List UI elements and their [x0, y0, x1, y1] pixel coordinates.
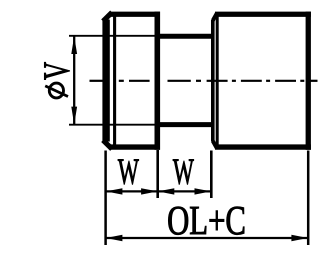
centerline (dash-dot axis) [90, 80, 318, 82]
body top-left chamfer [213, 13, 217, 20]
body right edge [306, 12, 311, 150]
flange top-left chamfer [103, 12, 112, 21]
arrowhead W2 left [158, 188, 175, 194]
flange left edge bar [102, 20, 109, 142]
dimension line OL+C [106, 237, 309, 239]
body bottom-left chamfer [213, 141, 217, 148]
flange right edge [155, 12, 161, 150]
dimension line W [106, 190, 212, 192]
body top edge [215, 12, 311, 17]
arrowhead W1 right [141, 188, 158, 194]
arrowhead OL+C left [106, 235, 123, 241]
neck top edge [157, 34, 212, 39]
arrowhead OL+C right [291, 235, 308, 241]
extension line ØV top [69, 35, 158, 37]
flange bottom-left chamfer [103, 140, 112, 149]
arrowhead W1 left [106, 188, 123, 194]
extension line W middle [156, 150, 159, 198]
arrowhead W2 right [195, 188, 212, 194]
svg-text:V: V [36, 62, 77, 80]
extension line W right [210, 151, 213, 199]
body bottom edge [215, 144, 311, 149]
flange chamfer edge line [113, 14, 116, 149]
svg-text:W: W [118, 151, 139, 192]
body left edge [211, 20, 215, 142]
diameter symbol slash [45, 86, 68, 97]
diameter symbol circle [49, 83, 63, 98]
arrowhead ØV down [71, 107, 77, 125]
svg-text:W: W [173, 151, 194, 192]
flange top edge [110, 12, 161, 17]
extension line W left [104, 151, 107, 246]
flange bottom edge [110, 144, 161, 149]
body chamfer edge line [216, 13, 219, 148]
extension line OL+C right [307, 151, 310, 246]
dimension line ØV [73, 37, 75, 125]
extension line ØV bottom [69, 124, 158, 126]
arrowhead ØV up [71, 36, 77, 54]
svg-text:OL+C: OL+C [167, 198, 246, 243]
neck bottom edge [157, 122, 212, 127]
